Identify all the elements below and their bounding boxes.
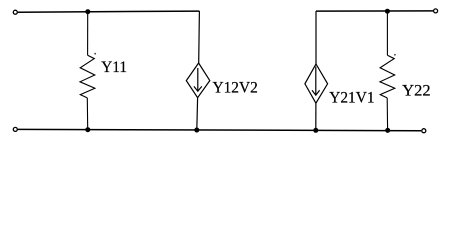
wire bottom (common rail) [18, 129, 421, 130]
wire top-right (Y21V1 branch corner to port2) [316, 10, 433, 12]
terminal port2 top-right [434, 9, 438, 13]
terminal port1 bottom-left [13, 127, 17, 131]
junction dot Y22 bottom [385, 128, 390, 133]
junction dot Y11 top [85, 9, 90, 14]
svg-text:Y11: Y11 [101, 58, 127, 76]
svg-text:Y22: Y22 [402, 82, 430, 100]
stray dot near Y11 top [94, 53, 96, 55]
stray dot near Y22 top [394, 54, 396, 56]
terminal port2 bottom-right [422, 129, 426, 133]
svg-text:Y21V1: Y21V1 [329, 89, 374, 107]
controlled current source Y21V1 [305, 11, 328, 130]
resistor Y11 [80, 12, 95, 130]
junction dot Y22 top [385, 9, 390, 14]
wire top-left (port1 to Y12V2 branch corner) [18, 11, 200, 12]
svg-text:Y12V2: Y12V2 [213, 79, 258, 97]
terminal port1 top-left [13, 10, 17, 14]
junction dot Y12V2 bottom [194, 128, 199, 133]
junction dot Y11 bottom [85, 127, 90, 132]
controlled current source Y12V2 [186, 11, 210, 130]
resistor Y22 [380, 11, 395, 130]
junction dot Y21V1 bottom [313, 128, 318, 133]
